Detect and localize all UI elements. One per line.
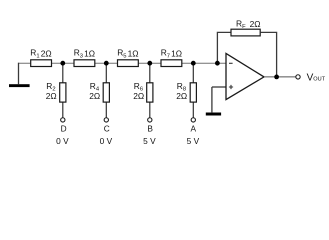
svg-text:B: B [147, 124, 153, 134]
svg-text:5 V: 5 V [143, 136, 156, 146]
wire R2 branch [62, 63, 64, 117]
wire ground drop left [18, 63, 20, 84]
terminal C [104, 118, 108, 122]
svg-text:0 V: 0 V [56, 136, 69, 146]
wire non-inverting input [212, 86, 226, 88]
svg-text:2Ω: 2Ω [250, 19, 261, 29]
wire R4 branch [105, 63, 107, 117]
node junction 2 [104, 61, 109, 66]
svg-text:R31Ω: R31Ω [74, 48, 95, 60]
svg-text:A: A [191, 124, 197, 134]
terminal B [148, 118, 152, 122]
resistor R8 [190, 83, 196, 102]
wire output [264, 76, 296, 78]
node junction 4 [191, 61, 196, 66]
svg-text:2Ω: 2Ω [133, 91, 144, 101]
svg-text:R51Ω: R51Ω [117, 48, 138, 60]
svg-text:D: D [61, 124, 67, 134]
wire R6 branch [149, 63, 151, 117]
ground op-amp [206, 113, 221, 116]
resistor R2 [60, 83, 66, 102]
node feedback input [215, 61, 220, 66]
terminal A [191, 118, 195, 122]
terminal VOUT [296, 75, 300, 79]
svg-text:2Ω: 2Ω [89, 91, 100, 101]
node output [274, 75, 279, 80]
svg-text:5 V: 5 V [187, 136, 200, 146]
svg-text:C: C [104, 124, 110, 134]
resistor R5 [118, 60, 139, 67]
wire feedback right [260, 32, 276, 77]
wire R8 branch [192, 63, 194, 117]
svg-text:2Ω: 2Ω [176, 91, 187, 101]
resistor R3 [74, 60, 95, 67]
svg-text:R12Ω: R12Ω [30, 48, 51, 60]
wire feedback left riser [217, 32, 231, 63]
svg-text:OUT: OUT [313, 77, 325, 83]
resistor R6 [147, 83, 153, 102]
op-amp U1 [226, 53, 264, 99]
terminal D [61, 118, 65, 122]
resistor R4 [103, 83, 109, 102]
ground [9, 84, 30, 87]
svg-text:R71Ω: R71Ω [161, 48, 182, 60]
node junction 1 [60, 61, 65, 66]
svg-text:2Ω: 2Ω [46, 91, 57, 101]
svg-text:0 V: 0 V [100, 136, 113, 146]
resistor R7 [161, 60, 182, 67]
wire ground drop op-amp [211, 87, 213, 112]
node junction 3 [147, 61, 152, 66]
resistor R1 [31, 60, 52, 67]
wire main bus [19, 62, 227, 64]
resistor RF [231, 29, 260, 36]
